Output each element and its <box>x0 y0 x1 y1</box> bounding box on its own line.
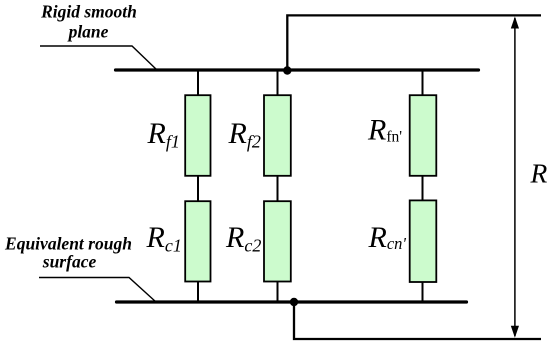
wire R_cn' to bottom bus <box>422 282 424 302</box>
svg-text:Equivalent rough: Equivalent rough <box>4 233 132 253</box>
svg-text:Rigid smooth: Rigid smooth <box>40 2 137 22</box>
equivalent rough surface (bottom bus) <box>117 300 467 303</box>
svg-text:Rfn': Rfn' <box>367 114 402 147</box>
wire top bus to R_f2 <box>277 70 279 95</box>
svg-text:R: R <box>530 158 548 189</box>
wire top bus to R_f1 <box>197 70 199 95</box>
svg-text:surface: surface <box>42 251 97 271</box>
wire R_c1 to bottom bus <box>197 282 199 303</box>
wire R_fn' to R_cn' <box>422 176 424 201</box>
label "Equivalent rough surface" <box>4 233 132 271</box>
svg-text:Rc2: Rc2 <box>225 221 261 256</box>
wire top junction up and right <box>287 15 541 70</box>
resistor R_fn' <box>410 95 437 176</box>
wire bottom junction down and right <box>294 302 541 339</box>
dimension arrow R (double-headed) <box>511 17 519 338</box>
leader wire to equivalent rough surface <box>39 278 156 303</box>
resistor R_cn' <box>410 200 437 282</box>
wire top bus to R_fn' <box>422 70 424 95</box>
svg-text:Rcn': Rcn' <box>368 221 407 254</box>
wire R_f1 to R_c1 <box>197 176 199 201</box>
wire R_c2 to bottom bus <box>277 282 279 303</box>
resistor R_c2 <box>264 201 291 281</box>
svg-text:Rf1: Rf1 <box>147 117 180 152</box>
svg-text:Rf2: Rf2 <box>228 117 261 152</box>
resistor R_c1 <box>185 201 210 281</box>
svg-text:plane: plane <box>67 21 109 41</box>
label "Rigid smooth plane" <box>40 2 137 42</box>
resistor R_f1 <box>185 95 210 176</box>
svg-text:Rc1: Rc1 <box>146 221 182 256</box>
wire R_f2 to R_c2 <box>277 176 279 201</box>
resistor R_f2 <box>264 95 291 176</box>
rigid smooth plane (top bus) <box>116 68 479 71</box>
node top junction <box>283 66 291 74</box>
node bottom junction <box>290 298 298 306</box>
leader wire to rigid smooth plane <box>40 46 157 70</box>
